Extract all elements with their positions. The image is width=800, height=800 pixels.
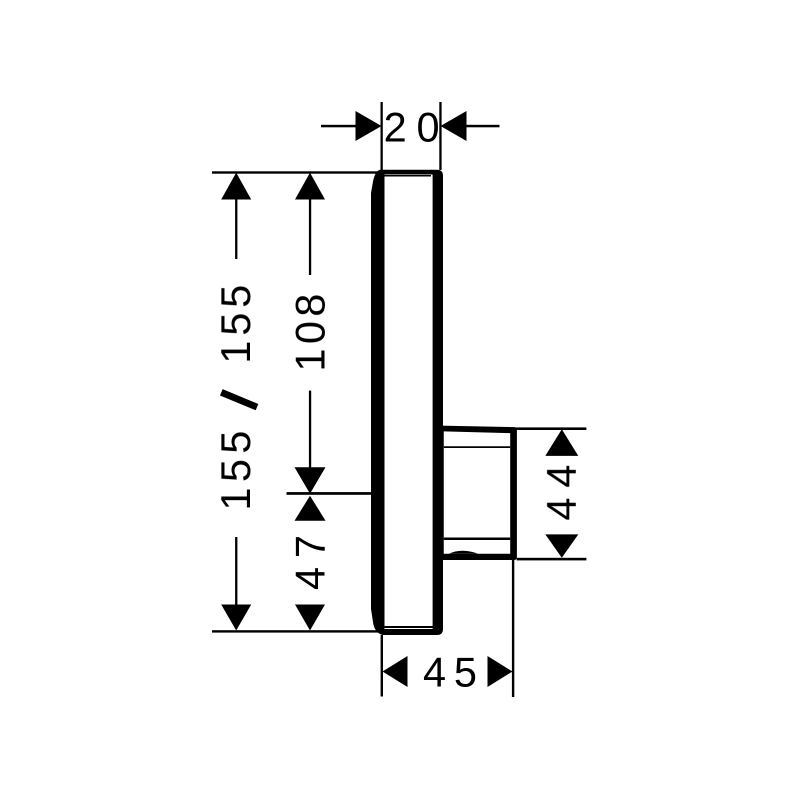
arrow 20 right — [441, 111, 467, 141]
svg-text:2 0: 2 0 — [384, 104, 440, 151]
valve bottom bump — [449, 551, 478, 554]
extension line 20 right — [439, 102, 441, 170]
dimension line 155 upper segment — [235, 199, 237, 259]
valve interior (white) — [444, 431, 510, 553]
arrow 44 bottom — [545, 534, 578, 557]
extension line top left (y=171.5) — [212, 171, 378, 173]
svg-text:155: 155 — [212, 431, 259, 511]
extension line 20 left — [381, 102, 383, 170]
plate inner bottom line — [385, 626, 434, 628]
svg-text:155: 155 — [212, 285, 259, 364]
arrow 45 right — [488, 656, 513, 687]
valve body (filled outline) — [438, 426, 517, 560]
svg-text:4 4: 4 4 — [538, 465, 585, 521]
extension line 44 bottom (y=558.8) — [517, 558, 587, 561]
extension line bottom left (y=631) — [212, 630, 379, 632]
arrow 108 top — [295, 173, 325, 200]
plate interior (white) — [385, 175, 433, 630]
arrow 155 bottom — [221, 605, 251, 631]
svg-text:4 5: 4 5 — [423, 649, 477, 696]
extension line 44 top (y=428.4) — [516, 427, 587, 430]
dimension tail 20 left — [321, 125, 356, 128]
arrow 20 left — [356, 111, 382, 141]
svg-text:108: 108 — [287, 294, 334, 372]
arrow 155 top — [221, 173, 251, 200]
extension line 45 right (x=513) — [512, 560, 514, 697]
plate inner top line — [385, 175, 432, 177]
arrow 44 top — [545, 429, 578, 456]
valve inner bottom line — [444, 538, 510, 541]
extension line valve centerline (y=493.5) — [287, 492, 373, 495]
arrow 108 bottom — [295, 467, 326, 493]
slash of 155/155 — [221, 392, 257, 407]
arrow 47 top — [295, 496, 326, 521]
plate body (side profile, filled outline) — [371, 170, 443, 635]
dimension line 155 lower segment — [235, 537, 237, 605]
dimension line 108 lower segment — [309, 391, 311, 468]
arrow 47 bottom — [295, 605, 325, 631]
dimension line 108 upper segment — [309, 199, 311, 275]
valve inner top line — [444, 446, 510, 448]
extension line 45 left (x=381.7) — [381, 635, 383, 697]
dimension tail 20 right — [466, 125, 500, 128]
arrow 45 left — [383, 656, 408, 687]
